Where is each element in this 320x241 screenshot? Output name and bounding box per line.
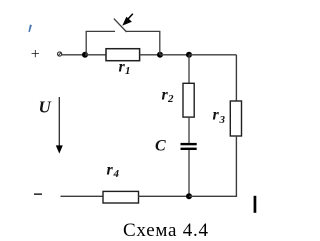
wire: top-right corner down to r3 [235, 55, 237, 101]
wire: node C down to r2 [188, 55, 190, 84]
svg-text:4: 4 [113, 168, 120, 180]
resistor r3 [230, 101, 241, 136]
text cursor bar [254, 196, 257, 213]
wire: r3 down to bottom-right corner [235, 136, 237, 196]
wire: - terminal to r4 [61, 195, 104, 197]
caption: Схема 4.4 [123, 220, 209, 241]
terminal circle (input + terminal) [58, 52, 62, 56]
label r3 [213, 107, 226, 127]
svg-text:3: 3 [219, 114, 226, 126]
svg-text:+: + [30, 46, 41, 63]
wire: switch branch left vertical [85, 31, 87, 54]
label r1 [119, 59, 131, 78]
svg-text:r: r [107, 162, 114, 179]
wire: node D to bottom-right corner [189, 195, 237, 197]
node C (junction dot, r2 branch) [186, 52, 192, 58]
wire: r2 to capacitor C [188, 117, 190, 143]
minus terminal label [34, 193, 42, 195]
switch S blade [114, 19, 127, 32]
wire: node C to top-right corner [189, 54, 236, 56]
resistor r2 [183, 83, 194, 117]
resistor r4 [103, 191, 139, 203]
wire: + terminal to node A [62, 54, 85, 56]
wire: switch branch top-right horizontal [126, 30, 160, 32]
wire: node A to resistor r1 [85, 54, 106, 56]
label r4 [107, 162, 120, 181]
wire: capacitor C to node D [188, 150, 190, 196]
node B (junction dot, switch branch) [157, 52, 163, 58]
wire: switch branch top-left horizontal [86, 30, 115, 32]
node D (junction dot) [186, 193, 192, 199]
plus terminal label [30, 46, 41, 63]
arrow U (voltage direction) [56, 97, 63, 154]
label r2 [162, 87, 175, 106]
svg-text:1: 1 [125, 65, 131, 77]
label U (source voltage) [39, 98, 52, 117]
svg-text:C: C [155, 138, 166, 155]
wire: r4 to node D [139, 195, 190, 197]
svg-text:Схема 4.4: Схема 4.4 [123, 220, 209, 241]
switch actuator arrow [122, 14, 133, 26]
wire: switch branch right vertical [159, 31, 161, 54]
svg-text:U: U [39, 98, 52, 117]
wire: r1 to node B [140, 54, 160, 56]
svg-text:2: 2 [167, 93, 174, 105]
svg-text:r: r [213, 107, 220, 124]
resistor r1 [106, 49, 140, 61]
blue apostrophe mark [28, 25, 32, 33]
wire: node B to node C [160, 54, 189, 56]
node A (junction dot) [82, 52, 88, 58]
label C [155, 138, 166, 155]
capacitor C plates [181, 143, 197, 150]
